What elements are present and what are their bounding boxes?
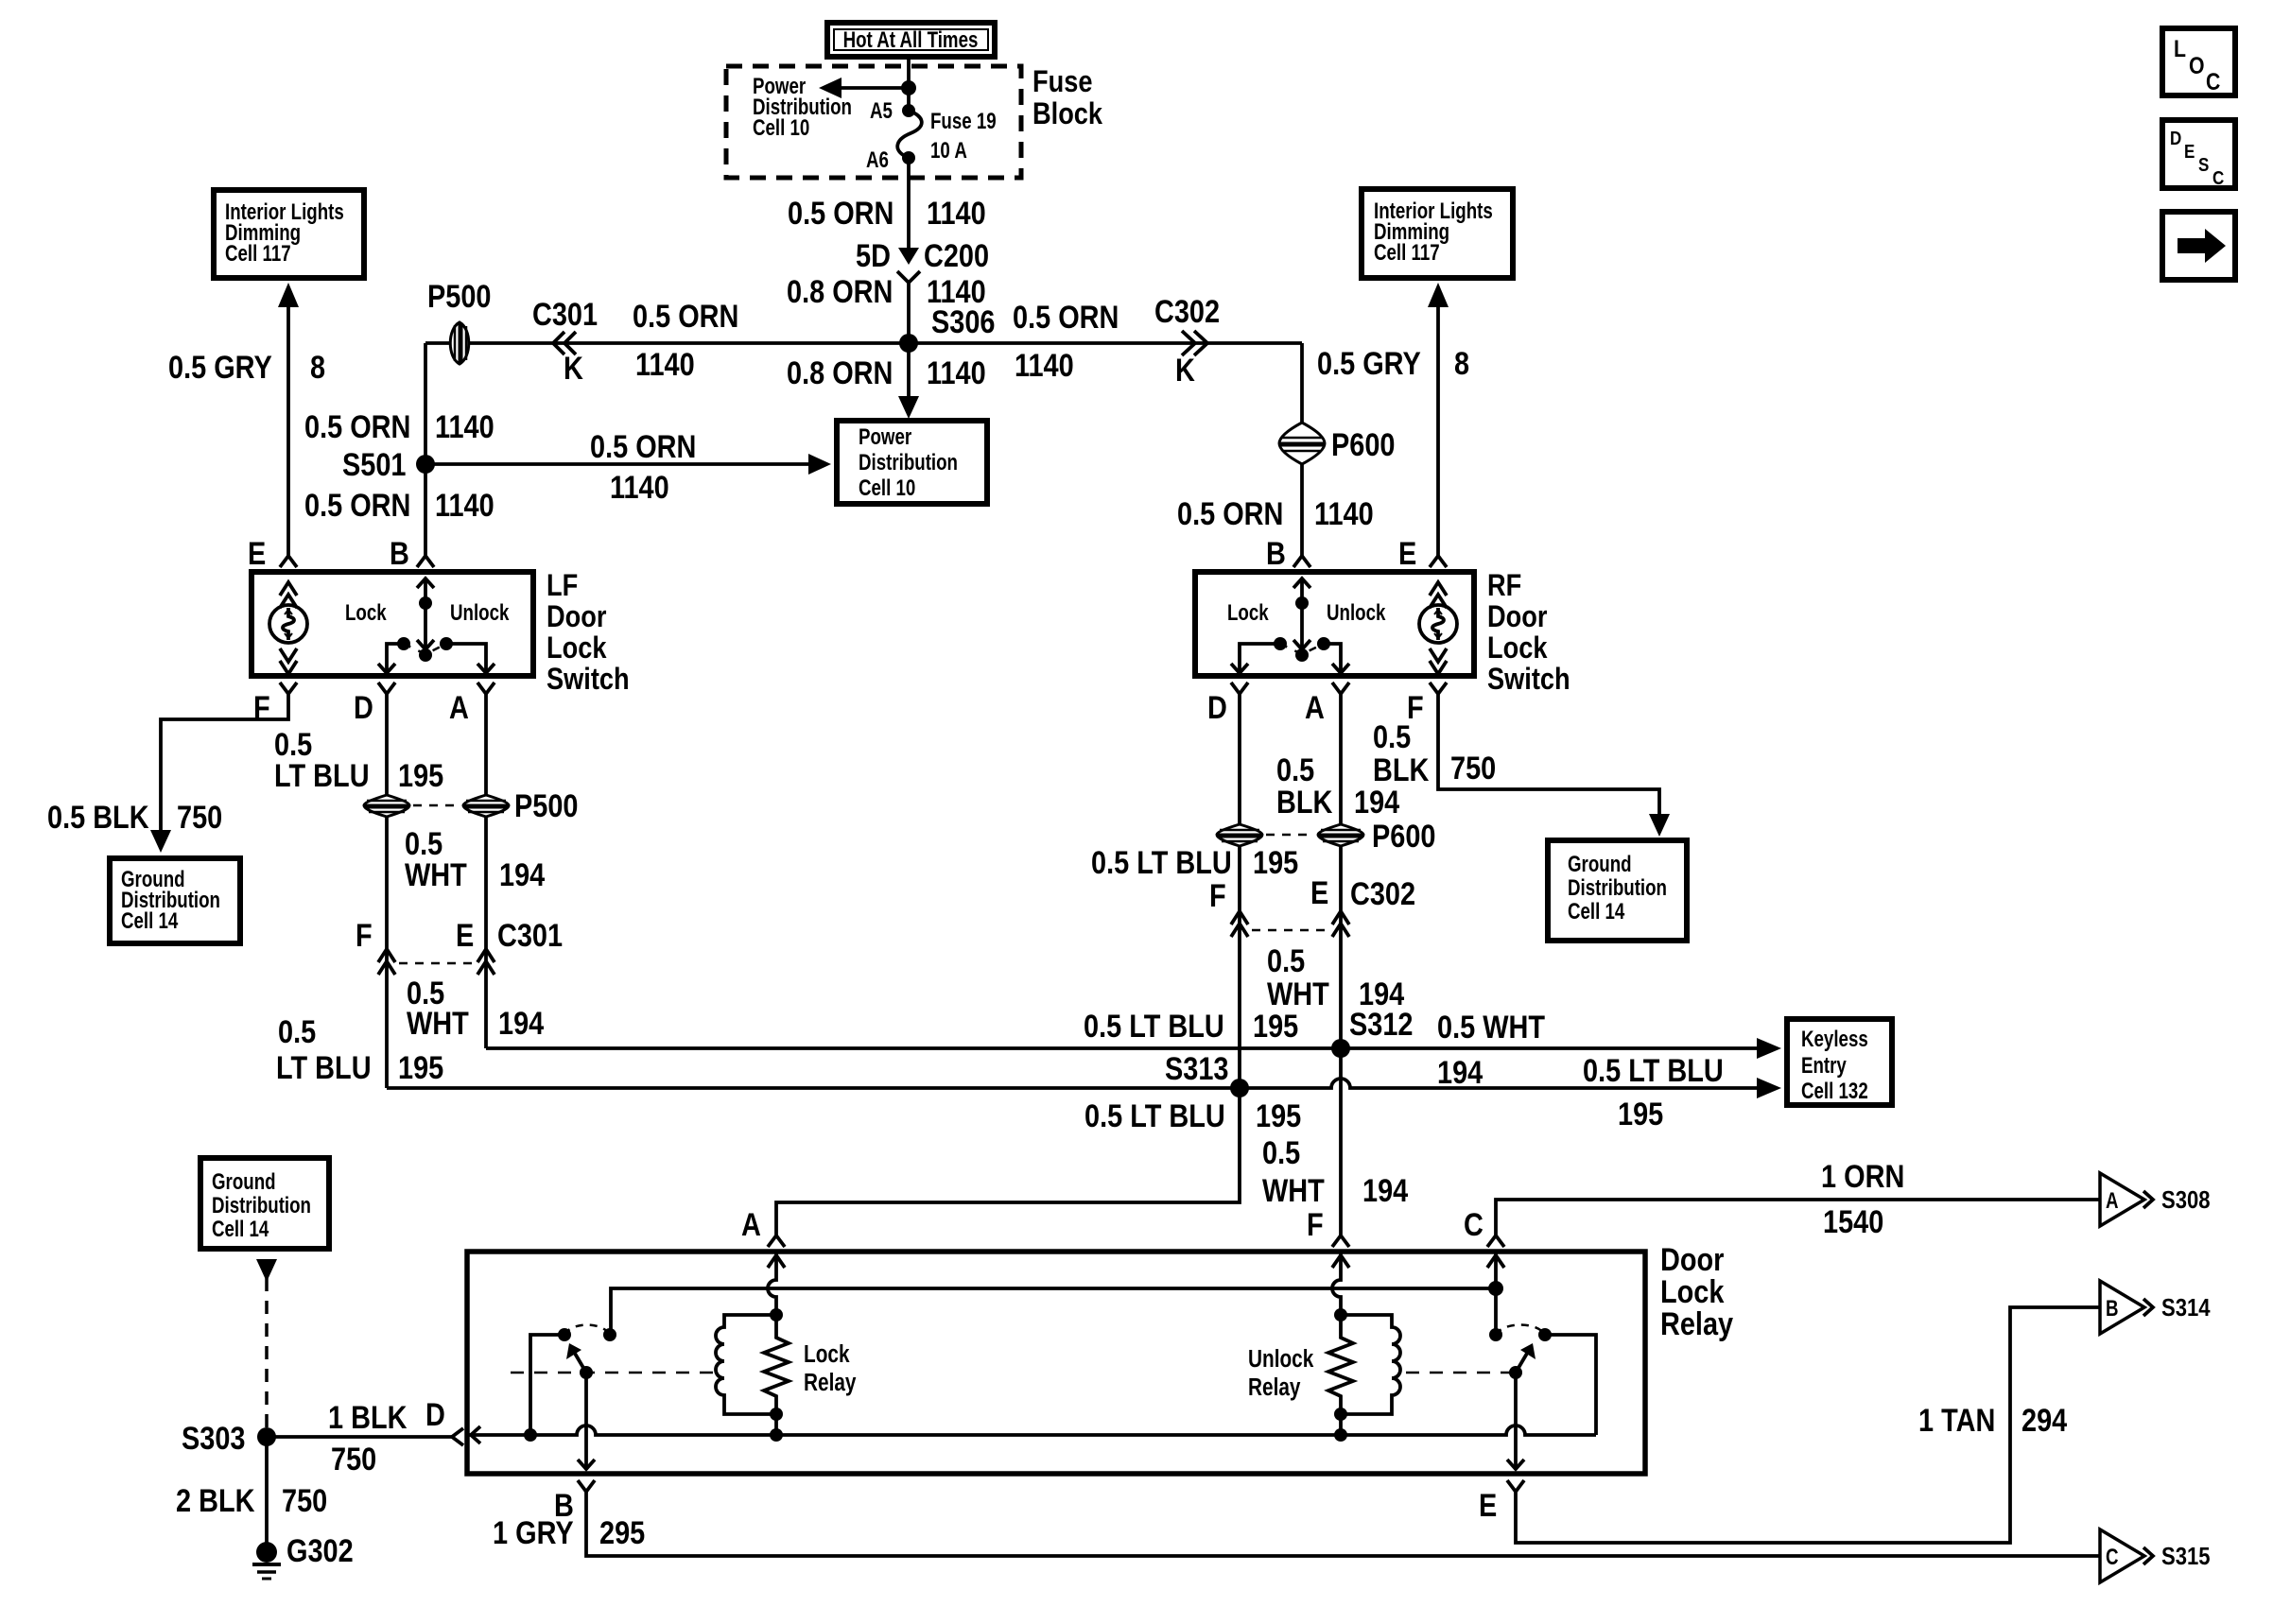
svg-text:195: 195 — [1256, 1097, 1301, 1134]
LF switch common arm (B) — [417, 578, 434, 662]
svg-text:WHT: WHT — [1262, 1172, 1325, 1209]
connector P500 (top barrel on bus) — [427, 278, 491, 364]
svg-text:S303: S303 — [182, 1420, 245, 1457]
RF Door Lock Switch label — [1487, 569, 1570, 697]
svg-text:1140: 1140 — [635, 346, 695, 383]
svg-text:S314: S314 — [2161, 1294, 2211, 1322]
svg-text:0.5 LT BLU: 0.5 LT BLU — [1091, 844, 1232, 881]
RF lamp feed chevrons (up) — [1430, 582, 1447, 608]
svg-text:Door: Door — [1487, 600, 1548, 634]
wire relay pin C down to inner bus — [1487, 1253, 1504, 1335]
wire right bus corner down to RF B — [1300, 343, 1304, 557]
wire label 0.5 WHT 194 (below C301) — [407, 975, 545, 1042]
wire relay C to S308 (1 ORN 1540) — [1496, 1200, 2100, 1236]
fuse F19 element — [897, 111, 922, 158]
svg-text:D: D — [1207, 689, 1227, 726]
LOC button — [2162, 28, 2235, 95]
wire relay pin F down to unlock relay (hops inner bus) — [1332, 1253, 1349, 1315]
wire from Hot At All Times into fuse block — [907, 57, 911, 111]
svg-text:K: K — [1175, 352, 1195, 389]
svg-text:Lock: Lock — [345, 600, 387, 626]
svg-text:S501: S501 — [342, 446, 406, 483]
svg-text:E: E — [456, 917, 474, 954]
svg-text:0.8 ORN: 0.8 ORN — [787, 273, 893, 310]
svg-text:0.5 GRY: 0.5 GRY — [1317, 345, 1421, 382]
terminal D (LF bottom) — [354, 682, 395, 726]
svg-text:Hot At All Times: Hot At All Times — [843, 27, 979, 53]
LF lamp feed chevrons (up) — [280, 582, 297, 608]
lock switch right contact — [603, 1328, 616, 1341]
svg-text:G302: G302 — [286, 1532, 354, 1569]
RF wire contact to D pin (arrow down) — [1231, 644, 1280, 673]
svg-text:WHT: WHT — [407, 1005, 469, 1042]
RF Door Lock Switch box — [1195, 572, 1474, 676]
wire RF E up to Interior Lights box (arrow up) — [1428, 283, 1449, 557]
svg-text:S313: S313 — [1165, 1050, 1228, 1087]
svg-text:0.5 ORN: 0.5 ORN — [304, 408, 410, 445]
bottom bus wire (pin D rail, hops B and E wires) — [467, 1425, 1596, 1443]
terminal F (LF bottom) — [253, 682, 297, 726]
svg-text:Cell 132: Cell 132 — [1801, 1079, 1868, 1104]
node junction at fuse feed — [901, 80, 916, 95]
unlock relay resistor — [1328, 1308, 1353, 1435]
wire label 0.5 ORN 1140 — [788, 195, 986, 232]
connector C301 (top, pin K) — [532, 296, 598, 387]
svg-text:1140: 1140 — [1314, 495, 1374, 532]
RF wire contact to A pin (arrow down) — [1324, 644, 1349, 673]
svg-text:1140: 1140 — [610, 469, 669, 506]
wire S313 down to relay pin A — [776, 1088, 1240, 1236]
svg-text:Distribution: Distribution — [212, 1193, 311, 1218]
svg-text:Relay: Relay — [1660, 1305, 1734, 1342]
LF wire contact to D pin (arrow down) — [378, 644, 404, 673]
terminal C (relay top) — [1464, 1206, 1504, 1247]
svg-text:8: 8 — [1454, 345, 1469, 382]
svg-text:C: C — [2106, 1545, 2119, 1570]
wire label 0.5 GRY 8 (right) — [1317, 345, 1469, 382]
svg-text:0.5: 0.5 — [1373, 718, 1411, 755]
svg-text:S312: S312 — [1349, 1006, 1413, 1043]
wire relay B to S315 (1 GRY 295) — [586, 1491, 2100, 1556]
mechanical link dashes (unlock) — [1406, 1372, 1510, 1374]
svg-text:Lock: Lock — [1227, 600, 1269, 626]
svg-text:WHT: WHT — [1267, 976, 1329, 1012]
wire RF A down to C302 — [1339, 693, 1343, 1048]
svg-text:E: E — [1479, 1487, 1497, 1524]
svg-text:D: D — [354, 689, 373, 726]
wire label 0.5 ORN 1140 (S501 branch) — [590, 428, 696, 506]
wire dashed drop from ground distribution to S303 — [256, 1259, 277, 1437]
wire left bus corner down to S501 — [424, 343, 427, 557]
wire label 0.5 LT BLU 195 (LF D) — [274, 726, 443, 794]
svg-text:E: E — [2184, 141, 2195, 163]
svg-text:Ground: Ground — [212, 1169, 276, 1195]
svg-text:0.5 BLK: 0.5 BLK — [47, 799, 149, 836]
wire label 1 ORN 1540 — [1821, 1158, 1904, 1240]
connector P500 (lower pair on LF A wire) — [413, 787, 578, 824]
terminal B (relay bottom) — [554, 1480, 595, 1524]
svg-text:1140: 1140 — [927, 354, 986, 391]
unlock switch left contact — [1489, 1328, 1502, 1341]
svg-text:195: 195 — [398, 757, 443, 794]
svg-text:C302: C302 — [1154, 293, 1220, 330]
wire label 1 BLK 750 — [328, 1399, 408, 1477]
wire label 0.5 LT BLU 195 (to keyless) — [1583, 1052, 1724, 1132]
svg-text:1140: 1140 — [435, 408, 495, 445]
terminal A (RF bottom) — [1305, 682, 1349, 726]
svg-text:Fuse: Fuse — [1032, 65, 1092, 99]
wire label 0.5 GRY 8 (left) — [168, 349, 325, 386]
splice S303 — [182, 1420, 276, 1457]
LF switch contacts and dashed throw — [397, 637, 453, 654]
next arrow button — [2162, 212, 2235, 280]
wire label 0.5 ORN 1140 (left of S306) — [633, 298, 738, 383]
svg-text:294: 294 — [2021, 1402, 2068, 1439]
wire label 0.5 LT BLU 195 (below C302 F) — [1084, 1008, 1298, 1045]
connector P500 (lower pair on LF D wire) — [364, 795, 409, 817]
connector C302 (top, pin K) — [1154, 293, 1220, 389]
svg-text:750: 750 — [177, 799, 222, 836]
svg-text:K: K — [564, 350, 583, 387]
wire LF D down to C301 — [385, 693, 389, 1088]
wire lock armature down to pin B — [578, 1373, 595, 1470]
wire label 0.5 ORN 1140 (above S501) — [304, 408, 495, 445]
svg-text:P600: P600 — [1372, 818, 1435, 855]
LF illumination lamp — [269, 605, 307, 643]
splice S306 — [899, 303, 995, 353]
wire label 0.5 ORN 1140 (below S501) — [304, 487, 495, 524]
svg-text:10 A: 10 A — [930, 138, 967, 164]
svg-text:C302: C302 — [1350, 875, 1415, 912]
svg-text:0.5 ORN: 0.5 ORN — [633, 298, 738, 335]
svg-text:P600: P600 — [1331, 426, 1395, 463]
svg-text:750: 750 — [331, 1441, 376, 1477]
svg-text:0.8 ORN: 0.8 ORN — [787, 354, 893, 391]
svg-text:C: C — [2212, 167, 2224, 189]
svg-text:Cell 14: Cell 14 — [1568, 899, 1624, 924]
inner bus wire (C to lock switch contact) — [611, 1288, 1496, 1335]
svg-text:195: 195 — [1253, 1008, 1298, 1045]
svg-text:194: 194 — [499, 856, 546, 893]
svg-text:Door: Door — [547, 600, 607, 634]
unlock relay coil — [1341, 1315, 1400, 1414]
RF switch contacts and dashed throw — [1274, 637, 1330, 654]
svg-text:0.5 ORN: 0.5 ORN — [590, 428, 696, 465]
svg-text:0.5: 0.5 — [1267, 942, 1305, 979]
connector P600 (lower pair on RF A wire) — [1266, 818, 1435, 855]
svg-text:A: A — [449, 689, 469, 726]
svg-text:C200: C200 — [924, 237, 989, 274]
Door Lock Relay label — [1660, 1241, 1734, 1342]
svg-text:Lock: Lock — [804, 1340, 850, 1368]
main horizontal bus wire — [425, 341, 1302, 345]
wire RF D down to C302 — [1238, 693, 1241, 1088]
svg-text:A5: A5 — [870, 98, 893, 124]
svg-text:0.5: 0.5 — [278, 1013, 316, 1050]
terminal F (RF bottom) — [1407, 682, 1447, 726]
svg-text:F: F — [1209, 877, 1226, 914]
wire arrow to Power Distribution (left inside fuse box) — [819, 78, 909, 98]
svg-text:750: 750 — [1450, 750, 1496, 786]
svg-text:C301: C301 — [532, 296, 598, 333]
svg-text:Ground: Ground — [1568, 852, 1632, 877]
svg-text:D: D — [425, 1396, 445, 1433]
svg-text:195: 195 — [1253, 844, 1298, 881]
lock switch dashed throw arc — [564, 1325, 610, 1336]
svg-text:0.5 LT BLU: 0.5 LT BLU — [1084, 1097, 1225, 1134]
svg-text:295: 295 — [599, 1514, 645, 1551]
wire S312 down to relay pin F — [1339, 1048, 1343, 1236]
wire label 0.5 WHT 194 (S312 down) — [1262, 1134, 1409, 1209]
svg-text:RF: RF — [1487, 569, 1521, 603]
svg-text:5D: 5D — [856, 237, 891, 274]
svg-text:1140: 1140 — [435, 487, 495, 524]
svg-text:B: B — [1266, 535, 1286, 572]
wire unlock armature down to pin E — [1507, 1373, 1524, 1470]
terminal B (RF top) — [1266, 535, 1310, 572]
wire label 0.8 ORN 1140 — [787, 273, 986, 310]
svg-text:Cell 14: Cell 14 — [121, 908, 178, 934]
svg-text:Cell 117: Cell 117 — [1374, 240, 1440, 266]
off-page connector A S308 — [2100, 1173, 2211, 1226]
svg-text:Relay: Relay — [804, 1369, 856, 1396]
svg-text:P500: P500 — [427, 278, 491, 315]
unlock switch dashed throw arc — [1496, 1325, 1545, 1336]
svg-text:LF: LF — [547, 569, 578, 603]
svg-text:D: D — [2170, 128, 2181, 149]
terminal D (relay left) — [425, 1396, 463, 1445]
terminal A (LF bottom) — [449, 682, 495, 726]
svg-text:A: A — [1305, 689, 1325, 726]
svg-text:Cell 10: Cell 10 — [859, 475, 915, 501]
svg-text:Distribution: Distribution — [859, 450, 958, 475]
LF Door Lock Switch box — [252, 572, 533, 676]
svg-text:P500: P500 — [514, 787, 578, 824]
svg-text:0.5 ORN: 0.5 ORN — [304, 487, 410, 524]
svg-text:C: C — [2206, 68, 2221, 95]
svg-text:S306: S306 — [931, 303, 995, 340]
splice S312 — [1331, 1006, 1413, 1058]
svg-text:1 TAN: 1 TAN — [1918, 1402, 1995, 1439]
fuse block dashed box — [726, 66, 1021, 178]
connector C302 (lower, pins F and E) — [1209, 874, 1415, 937]
Ground Distribution Cell 14 box (left) — [110, 858, 240, 943]
svg-text:C301: C301 — [497, 917, 563, 954]
svg-text:A6: A6 — [866, 147, 889, 173]
svg-text:0.5: 0.5 — [1262, 1134, 1300, 1171]
svg-text:Lock: Lock — [1487, 631, 1548, 665]
svg-text:Cell 117: Cell 117 — [225, 241, 291, 267]
terminal B (LF top) — [390, 535, 434, 572]
svg-text:B: B — [390, 535, 409, 572]
terminal E (relay bottom) — [1479, 1480, 1524, 1524]
wire relay E to S314 (1 TAN 294) — [1516, 1307, 2100, 1543]
svg-text:194: 194 — [1437, 1054, 1484, 1091]
pin A5 — [870, 98, 915, 124]
svg-text:Power: Power — [859, 424, 912, 450]
connector C200 (pin 5D) — [856, 237, 989, 283]
wire C200 to S306 — [907, 283, 911, 343]
svg-text:195: 195 — [398, 1049, 443, 1086]
wire 194 circuit to keyless entry (upper horizontal) — [486, 1038, 1781, 1059]
LF lamp to F chevrons (down) — [280, 648, 297, 674]
svg-text:Switch: Switch — [547, 663, 630, 697]
svg-text:L: L — [2174, 35, 2186, 61]
svg-text:Entry: Entry — [1801, 1053, 1847, 1079]
svg-text:Fuse 19: Fuse 19 — [930, 109, 997, 134]
svg-text:S: S — [2198, 154, 2209, 176]
Unlock Relay label — [1248, 1345, 1314, 1401]
svg-text:S308: S308 — [2161, 1186, 2211, 1214]
svg-text:Lock: Lock — [1660, 1273, 1725, 1310]
wire label 0.5 ORN 1140 (above RF B) — [1177, 495, 1374, 532]
svg-text:0.5: 0.5 — [1276, 752, 1314, 788]
wire 195 circuit to keyless entry (lower horizontal, hops S312 wire) — [387, 1078, 1781, 1098]
wire label 1 GRY 295 — [493, 1514, 645, 1551]
svg-text:Lock: Lock — [547, 631, 607, 665]
RF lamp to F chevrons (down) — [1430, 648, 1447, 674]
svg-text:0.5 ORN: 0.5 ORN — [1013, 299, 1119, 336]
svg-text:O: O — [2189, 52, 2205, 78]
connector C301 (lower, pins F and E) — [356, 917, 563, 975]
splice S313 — [1165, 1050, 1249, 1097]
svg-text:F: F — [356, 917, 373, 954]
svg-text:E: E — [1310, 874, 1328, 911]
wire label 0.5 LT BLU 195 (S313 down) — [1084, 1097, 1301, 1134]
Power Distribution Cell 10 label (inside fuse box) — [753, 74, 852, 141]
wire S303 down to G302 — [265, 1437, 269, 1548]
svg-text:Unlock: Unlock — [1248, 1345, 1314, 1373]
svg-text:LT BLU: LT BLU — [274, 757, 370, 794]
wire S303 to relay pin D — [267, 1435, 452, 1439]
svg-text:1540: 1540 — [1823, 1203, 1883, 1240]
wire label 0.5 BLK 750 (RF F) — [1373, 718, 1496, 788]
unlock switch armature — [1509, 1343, 1536, 1379]
terminal D (RF bottom) — [1207, 682, 1248, 726]
Ground Distribution Cell 14 box (right) — [1548, 840, 1687, 941]
svg-text:Unlock: Unlock — [450, 600, 509, 626]
LF Door Lock Switch label — [547, 569, 630, 697]
wire label 0.5 LT BLU 195 (RF D) — [1091, 844, 1298, 881]
wire label 0.5 LT BLU 195 (below C301 F) — [276, 1013, 443, 1086]
svg-text:2 BLK: 2 BLK — [176, 1482, 255, 1519]
wire label 1 TAN 294 — [1918, 1402, 2068, 1439]
lock switch left contact — [524, 1328, 571, 1442]
Hot At All Times box — [827, 23, 995, 57]
Door Lock Relay box — [467, 1252, 1645, 1474]
svg-text:Block: Block — [1032, 97, 1102, 131]
LF wire contact to A pin (arrow down) — [446, 644, 495, 673]
Interior Lights Dimming Cell 117 box (right) — [1362, 189, 1513, 278]
lock switch armature — [566, 1343, 593, 1379]
svg-text:A: A — [2106, 1188, 2119, 1214]
RF switch common arm (B) — [1293, 578, 1310, 662]
wire label 0.5 WHT 194 (below C302) — [1267, 942, 1405, 1012]
lock relay resistor — [764, 1308, 789, 1435]
off-page connector C S315 — [2100, 1529, 2211, 1582]
svg-text:Relay: Relay — [1248, 1373, 1300, 1401]
svg-text:Door: Door — [1660, 1241, 1724, 1278]
terminal E (LF top) — [248, 535, 297, 572]
wire label 0.5 WHT 194 (to keyless) — [1437, 1009, 1545, 1091]
svg-text:C: C — [1464, 1206, 1484, 1243]
splice S501 — [342, 446, 435, 483]
wire label 0.5 ORN 1140 (right of S306) — [1013, 299, 1119, 384]
svg-text:1140: 1140 — [1015, 347, 1074, 384]
mechanical link dashes (lock) — [511, 1372, 717, 1374]
fuse value label Fuse 19 10 A — [930, 109, 997, 164]
Lock Relay label — [804, 1340, 856, 1396]
svg-text:1 BLK: 1 BLK — [328, 1399, 408, 1436]
svg-text:BLK: BLK — [1276, 784, 1333, 821]
wire label 0.5 WHT 194 (LF A) — [405, 825, 546, 893]
svg-text:Cell 10: Cell 10 — [753, 115, 809, 141]
svg-text:A: A — [741, 1206, 761, 1243]
svg-text:B: B — [2106, 1296, 2119, 1322]
svg-text:1140: 1140 — [927, 195, 986, 232]
svg-text:Switch: Switch — [1487, 663, 1570, 697]
pin A6 — [866, 147, 915, 173]
svg-text:LT BLU: LT BLU — [276, 1049, 372, 1086]
svg-text:Distribution: Distribution — [1568, 875, 1667, 901]
svg-text:1 ORN: 1 ORN — [1821, 1158, 1904, 1195]
svg-text:0.5 WHT: 0.5 WHT — [1437, 1009, 1545, 1045]
wire label 2 BLK 750 — [176, 1482, 327, 1519]
svg-text:194: 194 — [1362, 1172, 1409, 1209]
DESC button — [2162, 120, 2235, 188]
svg-text:0.5 LT BLU: 0.5 LT BLU — [1084, 1008, 1224, 1045]
wire RF F to ground distribution (right) — [1438, 693, 1670, 837]
Keyless Entry Cell 132 box — [1787, 1019, 1892, 1105]
wire LF E up to Interior Lights box (arrow up) — [278, 283, 299, 557]
wire fuse output down to C200 — [907, 158, 911, 251]
svg-text:8: 8 — [310, 349, 325, 386]
Fuse Block label — [1032, 65, 1102, 131]
ground G302 — [252, 1532, 354, 1579]
terminal E (RF top) — [1398, 535, 1447, 572]
svg-text:750: 750 — [282, 1482, 327, 1519]
terminal A (relay top) — [741, 1206, 785, 1247]
svg-text:BLK: BLK — [1373, 752, 1430, 788]
svg-text:S315: S315 — [2161, 1543, 2211, 1570]
wire relay pin A down to lock relay (hops inner bus) — [768, 1253, 785, 1315]
svg-text:0.5 ORN: 0.5 ORN — [788, 195, 894, 232]
unlock switch right contact — [1538, 1328, 1596, 1435]
svg-text:Unlock: Unlock — [1327, 600, 1385, 626]
Power Distribution Cell 10 box (center) — [837, 421, 987, 504]
svg-text:195: 195 — [1618, 1096, 1663, 1132]
svg-text:0.5 GRY: 0.5 GRY — [168, 349, 272, 386]
svg-text:F: F — [1307, 1206, 1324, 1243]
wire S501 to Power Distribution box (arrow right) — [425, 454, 831, 475]
terminal F (relay top) — [1307, 1206, 1349, 1247]
svg-text:194: 194 — [498, 1005, 545, 1042]
Ground Distribution Cell 14 box (bottom left) — [200, 1158, 329, 1249]
svg-text:194: 194 — [1354, 784, 1400, 821]
svg-text:WHT: WHT — [405, 856, 467, 893]
svg-text:Cell 14: Cell 14 — [212, 1217, 269, 1242]
wire label 0.8 ORN 1140 — [787, 354, 986, 391]
svg-text:1 GRY: 1 GRY — [493, 1514, 574, 1551]
RF illumination lamp — [1419, 605, 1457, 643]
wire LF A down to C301 — [484, 693, 488, 1048]
svg-text:Keyless: Keyless — [1801, 1027, 1868, 1052]
svg-text:E: E — [1398, 535, 1416, 572]
svg-text:E: E — [248, 535, 266, 572]
wire S306 down to Power Distribution box — [898, 343, 919, 419]
lock relay coil — [716, 1315, 776, 1414]
svg-text:0.5 ORN: 0.5 ORN — [1177, 495, 1283, 532]
